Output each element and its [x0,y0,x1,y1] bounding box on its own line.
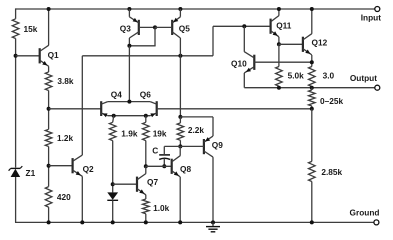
wire Q7 emitter to 1.0k [145,195,147,199]
label 15k [24,24,38,34]
svg-text:1.9k: 1.9k [121,128,138,138]
wire 1.9k top lead [113,116,114,123]
label C [152,145,158,155]
wire Q4/Q6 emitter bridge [108,115,151,117]
node Q3 collector junction [127,44,131,48]
node Q3/Q5 base [153,25,157,29]
wire Q1 collector riser [48,9,50,45]
wire 0-25k top lead [311,88,313,90]
node Q12 collector on rail [310,7,314,11]
terminal Input [375,7,380,12]
wire Q2 collector riser [81,56,83,155]
wire Q6 base row [157,108,312,110]
svg-text:C: C [152,145,158,155]
label 5.0k [288,71,305,81]
svg-text:Output: Output [350,73,377,83]
node Q11 emitter/Q12 base/5.0k [277,42,281,46]
label Q6 [140,89,151,99]
wire top supply rail [16,8,375,10]
node Q2 emitter at ground rail [80,220,84,224]
wire Q5 emitter drop [179,9,181,17]
transistor Q1 [40,45,49,66]
wire 0-25k bottom lead [311,106,313,109]
transistor Q8 [172,156,181,177]
wire Q5 collector drop [179,38,181,56]
label 19k [153,129,167,139]
node Q8 at ground rail [178,220,182,224]
label Q4 [111,89,122,99]
svg-text:Q10: Q10 [231,58,247,68]
wire Q12 collector riser [311,9,313,34]
zener diode Z1 [9,166,23,177]
label Q7 [147,177,158,187]
transistor Q5 [172,17,180,38]
svg-text:2.85k: 2.85k [321,167,342,177]
resistor 0-25k [309,90,316,106]
node bridge center [127,100,131,104]
wire Q3 emitter drop [128,9,130,17]
label 3.8k [57,76,74,86]
resistor 2.2k [177,123,184,140]
node 420 at ground rail [47,220,51,224]
svg-text:2.2k: 2.2k [188,125,205,135]
wire Q4/Q6 collector bridge [108,101,151,103]
wire left rail lower [15,177,17,223]
resistor 15k [12,19,19,39]
resistor 1.0k [143,199,150,214]
wire left rail middle [15,39,17,168]
node Q3 emitter on rail [127,7,131,11]
wire Q10 base row [254,61,311,63]
resistor 1.2k [45,129,52,146]
node 2.2k top [178,115,182,119]
wire Q5 base [155,26,172,28]
svg-text:Z1: Z1 [26,168,36,178]
wire 420 to ground rail [48,207,50,222]
transistor Q6 [150,101,157,117]
wire node to Q4 base [49,108,102,110]
transistor Q2 [73,155,83,176]
wire 1.2k to Q2 node [48,147,50,187]
wire Q5 collector to 2.2k node [179,56,181,117]
resistor 5.0k [276,67,283,87]
svg-text:Q1: Q1 [48,50,59,60]
wire 1.9k to diode node [112,141,114,193]
wire Q1 base [16,55,40,57]
resistor 420 [45,187,52,208]
wire Q8 emitter to ground [179,177,181,223]
svg-text:Q7: Q7 [147,177,158,187]
wire riser to Q11 base row [212,26,214,56]
label Q11 [276,20,292,30]
transistor Q4 [101,101,108,117]
wire Q2 emitter to ground [81,176,83,222]
wire Q1 emitter to 3.8k [48,66,50,72]
label Output [350,73,377,83]
resistor 3.0 [309,67,316,87]
wire 2.85k to ground rail [311,182,313,223]
terminal Ground [374,220,379,225]
label 0-25k [320,96,343,106]
wire 19k to Q7 collector node [145,141,147,167]
wire Q3 collector drop [128,38,130,46]
node cap on Q8 base wire [162,164,166,168]
node 5.0k at output row [277,86,281,90]
node 3.0 at output row [310,86,314,90]
transistor Q12 [303,34,312,55]
resistor 19k [143,122,150,140]
wire cap bottom stub [163,159,165,167]
wire Q12 base [279,43,303,45]
svg-text:Q2: Q2 [83,164,94,174]
svg-text:0–25k: 0–25k [320,96,343,106]
wire ground rail [15,221,374,223]
node Q1 base tap [14,54,18,58]
wire 3.8k to node [48,91,50,130]
svg-text:5.0k: 5.0k [288,71,305,81]
label 2.2k [188,125,205,135]
node Q5 collector junction [178,54,182,58]
label Ground [350,207,380,217]
wire diode to ground rail [112,200,114,222]
label Q1 [48,50,59,60]
wire Q9 base [180,145,204,147]
wire 5.0k bottom lead [278,86,280,88]
svg-text:Q4: Q4 [111,89,122,99]
label Q12 [312,37,328,47]
svg-text:420: 420 [57,192,71,202]
node 1.9k top [112,114,116,118]
resistor 3.8k [45,72,52,91]
label Z1 [26,168,36,178]
svg-text:1.0k: 1.0k [153,203,170,213]
svg-text:Q9: Q9 [212,140,223,150]
capacitor C [159,155,170,160]
wire Q10 collector riser [243,26,245,52]
diode D1 [107,192,118,200]
label 1.0k [153,203,170,213]
wire Q11 emitter drop [278,37,280,44]
wire Q3 base to node [139,26,155,28]
wire Q11 collector riser [278,9,280,16]
wire 2.2k bottom lead [179,140,181,146]
label Input [361,13,382,23]
wire Q9 collector to ground [212,157,214,222]
svg-text:Q11: Q11 [276,20,292,30]
svg-text:15k: 15k [24,24,38,34]
label Q8 [180,164,191,174]
svg-text:3.0: 3.0 [323,71,335,81]
transistor Q9 [204,136,213,157]
label 1.9k [121,128,138,138]
label 420 [57,192,71,202]
node 19k/Q7/Q8 junction [144,164,148,168]
node diode at ground rail [111,220,115,224]
label Q5 [179,23,190,33]
wire 1.0k to ground rail [145,214,147,223]
wire Q10 emitter drop [243,73,245,88]
wire 2.2k top lead [179,117,181,123]
wire Q2 base [49,165,73,167]
wire Q7 collector riser [145,166,147,173]
wire node to 2.85k [311,109,313,162]
resistor 2.85k [309,161,316,181]
svg-text:Q12: Q12 [312,37,328,47]
svg-text:Q6: Q6 [140,89,151,99]
node 3.8k/1.2k junction [47,107,51,111]
wire cap top stub [164,146,180,155]
node Q12 emitter/Q10 base/3.0 [310,60,314,64]
terminal Output [375,85,380,90]
node diode/Q7 base junction [111,182,115,186]
node 1.0k at ground rail [144,220,148,224]
svg-text:Q5: Q5 [179,23,190,33]
wire 5.0k top lead [278,44,280,66]
wire left rail upper [15,8,17,18]
label 1.2k [57,133,74,143]
wire Q11 base row [213,25,271,27]
label Q2 [83,164,94,174]
label Q9 [212,140,223,150]
label 2.85k [321,167,342,177]
node 19k top [144,114,148,118]
svg-text:19k: 19k [153,129,167,139]
resistor 1.9k [109,122,116,140]
transistor Q7 [137,174,146,195]
wire y56 row [82,55,213,57]
svg-text:Ground: Ground [350,207,380,217]
wire Q7 base [113,183,137,185]
node Q10 collector junction [242,24,246,28]
wire base loop down [129,27,155,45]
wire 3.0 bottom lead [311,87,313,88]
wire output row [244,87,374,89]
node Q5 emitter on rail [178,7,182,11]
wire 2.2k node to Q9 emitter riser [180,117,213,136]
node Q11 collector on rail [277,7,281,11]
svg-text:Input: Input [361,13,382,23]
wire Q8 base row [146,165,172,167]
label 3.0 [323,71,335,81]
node 2.2k/Q9 base/Q8 collector [178,144,182,148]
svg-text:Q8: Q8 [180,164,191,174]
node Q1 collector on rail [47,7,51,11]
label Q3 [120,23,131,33]
svg-text:3.8k: 3.8k [57,76,74,86]
wire 19k top lead [145,116,147,123]
svg-text:Q3: Q3 [120,23,131,33]
wire Q3 collector to Q4/Q6 bridge [128,46,130,102]
svg-text:1.2k: 1.2k [57,133,74,143]
node 2.85k at ground rail [310,220,314,224]
wire Q12 emitter drop [311,55,313,67]
node 1.2k/420/Q2 junction [47,164,51,168]
wire Q8 collector riser [179,146,181,155]
node Q9 at ground rail [211,220,215,224]
transistor Q3 [129,17,138,38]
transistor Q10 [244,52,254,73]
transistor Q11 [271,16,279,37]
label Q10 [231,58,247,68]
ground symbol [206,222,220,231]
node 0-25k/Q6 base junction [310,107,314,111]
